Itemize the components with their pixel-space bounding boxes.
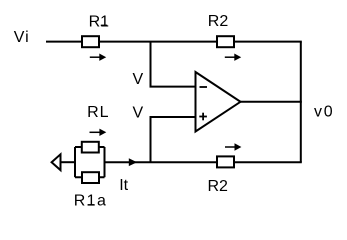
svg-text:R1: R1 — [89, 13, 110, 30]
svg-text:v0: v0 — [314, 103, 335, 120]
wire top R2 to right corner — [235, 41, 302, 43]
svg-text:R1a: R1a — [74, 193, 108, 210]
op-amp plus sign — [199, 113, 207, 121]
current arrow under top R2 — [225, 54, 241, 61]
wire arrow to RL network — [61, 161, 77, 163]
resistor RL (top box of parallel pair) — [82, 142, 99, 153]
wire R1 to R2 (top rail) — [100, 41, 216, 43]
RL network bottom branch wire — [75, 176, 105, 178]
RL network right rail — [104, 147, 106, 177]
svg-text:V: V — [133, 71, 144, 88]
svg-text:V: V — [133, 104, 144, 121]
resistor R1 — [82, 36, 99, 47]
resistor R1a (bottom box of parallel pair) — [82, 172, 99, 183]
svg-text:It: It — [119, 177, 128, 194]
label R1 — [89, 13, 110, 30]
wire into non-inverting input — [150, 116, 196, 118]
RL network left rail — [74, 147, 76, 177]
svg-text:RL: RL — [87, 104, 109, 121]
resistor R2 (bottom) — [217, 156, 234, 167]
wire right vertical (feedback bus) — [300, 42, 302, 163]
op-amp minus sign — [200, 86, 208, 88]
RL network top branch wire — [75, 146, 105, 148]
wire op-amp output — [241, 101, 302, 103]
wire junction drop to inverting input — [150, 42, 152, 87]
label R1a — [74, 193, 108, 210]
wire junction drop from non-inverting input to bottom rail — [150, 117, 152, 162]
svg-text:R2: R2 — [208, 13, 229, 30]
svg-text:Vi: Vi — [14, 29, 30, 46]
resistor R2 (top) — [217, 36, 234, 47]
wire into inverting input — [150, 86, 196, 88]
current arrow under R1 — [90, 54, 106, 61]
wire Vi input lead — [46, 41, 81, 43]
op-amp U1 — [196, 72, 241, 132]
current arrow above RL network — [90, 129, 107, 136]
transducer input arrow (open arrowhead) — [52, 154, 61, 170]
current arrowhead It on bottom rail — [129, 158, 137, 166]
svg-text:R2: R2 — [208, 178, 229, 195]
current arrow above bottom R2 — [225, 143, 241, 150]
wire bottom R2 to right vertical — [235, 161, 302, 163]
wire bottom rail (RL network to bottom R2) — [105, 161, 217, 163]
